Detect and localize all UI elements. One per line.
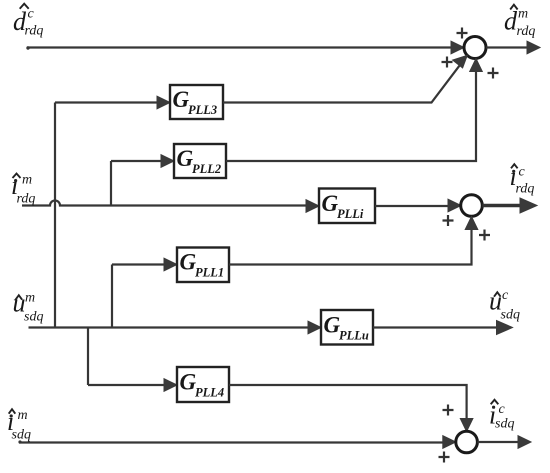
svg-text:c: c [28,7,35,22]
svg-text:c: c [499,402,506,417]
svg-text:rdq: rdq [17,192,36,207]
svg-text:m: m [25,291,35,306]
svg-text:rdq: rdq [517,24,536,39]
svg-text:c: c [502,288,509,303]
svg-text:m: m [22,173,32,188]
svg-text:sdq: sdq [495,417,514,432]
svg-text:PLLi: PLLi [337,207,364,221]
svg-text:PLL2: PLL2 [192,162,221,176]
svg-text:G: G [177,146,194,171]
svg-text:PLLu: PLLu [339,329,369,343]
svg-text:rdq: rdq [516,182,535,197]
svg-text:m: m [18,408,28,423]
svg-text:G: G [180,370,197,395]
svg-text:sdq: sdq [24,310,43,325]
svg-text:m: m [518,6,528,21]
svg-text:rdq: rdq [25,24,44,39]
svg-text:PLL1: PLL1 [195,266,224,280]
svg-text:G: G [180,250,197,275]
svg-text:G: G [322,191,339,216]
svg-text:c: c [519,165,526,180]
svg-text:PLL4: PLL4 [195,386,224,400]
svg-text:G: G [324,313,341,338]
svg-text:G: G [173,87,190,112]
svg-text:PLL3: PLL3 [188,103,217,117]
svg-text:sdq: sdq [12,428,31,443]
svg-text:sdq: sdq [501,308,520,323]
